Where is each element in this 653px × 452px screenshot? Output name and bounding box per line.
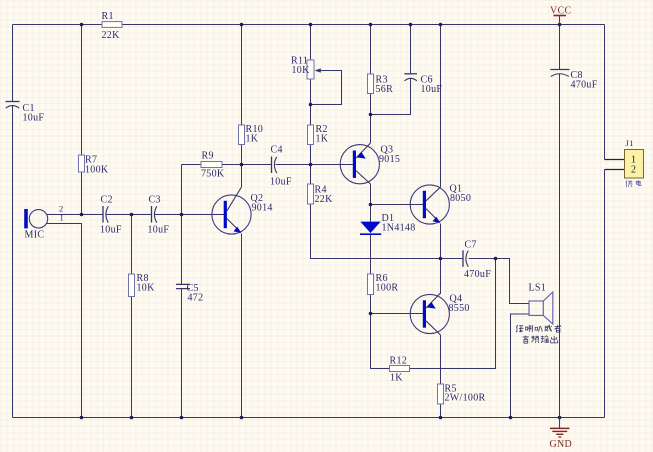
svg-text:C2: C2 bbox=[101, 195, 113, 206]
wire Q4 collector down to R5 bbox=[440, 335, 442, 384]
char yin bbox=[523, 336, 529, 343]
svg-text:R1: R1 bbox=[102, 11, 114, 22]
wire bottom rail bbox=[13, 417, 605, 419]
wire C7 right to speaker branch bbox=[469, 259, 529, 304]
wire R4 bottom to output node bbox=[311, 204, 464, 259]
svg-text:10uF: 10uF bbox=[23, 113, 45, 124]
wire Q3 emitter up bbox=[370, 115, 372, 144]
svg-text:1N4148: 1N4148 bbox=[382, 223, 416, 234]
wire C6 bottom to emitter node bbox=[371, 78, 411, 114]
resistor R5 bbox=[438, 384, 486, 405]
potentiometer R11 bbox=[291, 56, 321, 80]
capacitor C5 bbox=[176, 283, 203, 304]
speaker annotation line1 (Chinese) bbox=[516, 325, 561, 332]
wire R8 bottom bbox=[131, 297, 133, 418]
wire junction to Q3 base bbox=[311, 164, 354, 166]
speaker LS1 bbox=[529, 283, 553, 325]
wire R7 top (rail to R7) bbox=[81, 25, 83, 156]
capacitor C7 bbox=[463, 240, 491, 281]
svg-text:470uF: 470uF bbox=[464, 269, 491, 280]
wire Q2 collector bbox=[241, 165, 243, 188]
resistor R2 bbox=[308, 124, 329, 145]
resistor R4 bbox=[308, 184, 334, 205]
char chu bbox=[551, 336, 558, 343]
svg-text:VCC: VCC bbox=[550, 6, 571, 17]
wire C3 to Q2 base bbox=[155, 214, 225, 216]
svg-text:9014: 9014 bbox=[252, 203, 273, 214]
wire right rail lower (J1 pin2 to bottom rail) bbox=[604, 170, 606, 418]
svg-text:10uF: 10uF bbox=[100, 225, 122, 236]
transistor Q2 (NPN 9014) bbox=[212, 187, 273, 234]
wire right rail upper (top rail to J1 pin1) bbox=[604, 25, 606, 160]
char huo bbox=[544, 325, 551, 332]
resistor R12 bbox=[390, 356, 410, 384]
wire Q2 emitter down to ground bbox=[241, 234, 243, 418]
svg-text:1K: 1K bbox=[246, 134, 259, 145]
wire R3 top (rail down) bbox=[370, 25, 372, 75]
svg-text:22K: 22K bbox=[315, 194, 334, 205]
wire R6 bottom to Q4 base node bbox=[370, 295, 372, 314]
capacitor C3 bbox=[148, 195, 170, 236]
wire C5 bottom bbox=[181, 289, 183, 418]
svg-text:8550: 8550 bbox=[449, 303, 470, 314]
resistor R7 bbox=[79, 155, 109, 176]
resistor R3 bbox=[368, 74, 394, 95]
wire R5 bottom to ground bbox=[440, 404, 442, 418]
microphone MIC bbox=[24, 204, 64, 241]
resistor R1 bbox=[102, 11, 123, 41]
char zhe bbox=[554, 325, 560, 332]
svg-text:56R: 56R bbox=[376, 84, 394, 95]
svg-text:100K: 100K bbox=[85, 165, 109, 176]
char gong bbox=[626, 180, 633, 187]
svg-text:R9: R9 bbox=[202, 151, 214, 162]
wire C2 to C3 bbox=[106, 214, 151, 216]
wire D1 node to Q1 base bbox=[371, 204, 424, 206]
svg-text:10uF: 10uF bbox=[148, 225, 170, 236]
svg-text:470uF: 470uF bbox=[571, 80, 598, 91]
svg-text:750K: 750K bbox=[201, 169, 225, 180]
svg-text:MIC: MIC bbox=[25, 230, 45, 241]
ground symbol GND bbox=[550, 418, 573, 451]
wire junction to C4 bbox=[242, 164, 272, 166]
resistor R10 bbox=[239, 124, 264, 145]
wire R9 right to collector junction bbox=[222, 164, 242, 166]
svg-text:C7: C7 bbox=[465, 240, 477, 251]
wire Q1 collector (rail down) bbox=[440, 25, 442, 188]
transistor Q3 (PNP 9015) bbox=[340, 143, 400, 184]
wire C4 to R2/R4 junction bbox=[275, 164, 310, 166]
wire Q4 base wire bbox=[371, 313, 424, 315]
power symbol VCC bbox=[550, 6, 571, 25]
capacitor C1 bbox=[6, 102, 45, 124]
resistor R6 bbox=[368, 273, 399, 295]
wire mic pin1 down to ground bbox=[47, 224, 82, 418]
char jie bbox=[516, 325, 523, 332]
wire C8 bottom to ground rail bbox=[559, 74, 561, 418]
svg-text:10K: 10K bbox=[137, 283, 156, 294]
wire C6 top (rail down) bbox=[410, 25, 412, 74]
svg-text:GND: GND bbox=[550, 439, 573, 450]
resistor R8 bbox=[129, 273, 156, 297]
svg-text:9015: 9015 bbox=[379, 154, 400, 165]
wire R11 top (rail down) bbox=[310, 25, 312, 61]
wire speaker bottom to ground bbox=[511, 314, 530, 418]
wire R7 bottom (R7 to mic node) bbox=[81, 172, 83, 215]
wire R10 bottom to junction bbox=[241, 145, 243, 165]
svg-text:2W/100R: 2W/100R bbox=[445, 393, 486, 404]
capacitor C4 bbox=[270, 145, 292, 188]
wire mic pin2 to C2 bbox=[47, 214, 103, 216]
wire left rail upper (to C1) bbox=[12, 25, 14, 102]
wire Q4 emitter up to output bbox=[440, 259, 442, 295]
wire R12 right to output node (crosses R5 line) bbox=[410, 259, 496, 369]
svg-text:472: 472 bbox=[188, 293, 204, 304]
transistor Q1 (NPN 8050) bbox=[410, 184, 471, 225]
char la1 bbox=[526, 325, 533, 332]
transistor Q4 (PNP 8550) bbox=[410, 293, 470, 335]
char dian bbox=[636, 180, 641, 185]
wire Q3 collector down to D1 node bbox=[370, 184, 372, 205]
wire C8 top (rail down) bbox=[559, 25, 561, 70]
char pin bbox=[531, 336, 539, 343]
svg-text:C3: C3 bbox=[149, 195, 161, 206]
svg-text:1K: 1K bbox=[390, 373, 403, 384]
J1 pin1 stub bbox=[605, 159, 625, 161]
capacitor C6 bbox=[404, 74, 442, 95]
svg-text:2: 2 bbox=[631, 165, 636, 176]
wire D1 anode stub bbox=[370, 205, 372, 222]
svg-text:100R: 100R bbox=[376, 283, 399, 294]
speaker annotation line2 (Chinese) bbox=[523, 336, 558, 343]
svg-text:R12: R12 bbox=[390, 356, 408, 367]
char shu bbox=[541, 336, 549, 343]
connector J1 bbox=[605, 138, 644, 187]
diode D1 (1N4148) bbox=[360, 213, 416, 234]
wire R2 bottom to junction bbox=[310, 145, 312, 165]
J1 label (Chinese: power supply) bbox=[626, 180, 641, 187]
svg-text:8050: 8050 bbox=[450, 193, 471, 204]
wire R11 bottom to R2 bbox=[310, 79, 312, 125]
svg-text:10uF: 10uF bbox=[421, 84, 443, 95]
svg-text:10uF: 10uF bbox=[270, 177, 292, 188]
wire R3 bottom to emitter node bbox=[370, 94, 372, 115]
capacitor C8 bbox=[550, 70, 597, 91]
wire top rail bbox=[13, 24, 605, 26]
J1 pin2 stub bbox=[605, 169, 625, 171]
wire R9 left (base node up to R9) bbox=[182, 165, 202, 215]
wire C5 top (node to C5) bbox=[181, 215, 183, 285]
svg-text:LS1: LS1 bbox=[529, 283, 547, 294]
resistor R9 bbox=[201, 151, 225, 180]
wire Q4 base node down to R12 bbox=[371, 314, 390, 369]
svg-text:1K: 1K bbox=[316, 134, 329, 145]
wire D1 cathode down to R6 (crosses output wire) bbox=[370, 235, 372, 275]
capacitor C2 bbox=[100, 195, 122, 236]
wire R10 top (rail down) bbox=[241, 25, 243, 126]
svg-text:10K: 10K bbox=[292, 65, 311, 76]
wire junction to R4 bbox=[310, 165, 312, 185]
svg-text:J1: J1 bbox=[626, 138, 634, 148]
svg-text:22K: 22K bbox=[102, 30, 121, 41]
svg-text:C4: C4 bbox=[271, 145, 283, 156]
svg-text:1: 1 bbox=[60, 213, 65, 223]
wire left rail lower (C1 to bottom) bbox=[12, 105, 14, 417]
wire R11 wiper loop bbox=[311, 71, 342, 105]
wire Q1 emitter to output bbox=[440, 224, 442, 259]
char ba1 bbox=[535, 326, 542, 332]
wire R8 top bbox=[131, 215, 133, 275]
